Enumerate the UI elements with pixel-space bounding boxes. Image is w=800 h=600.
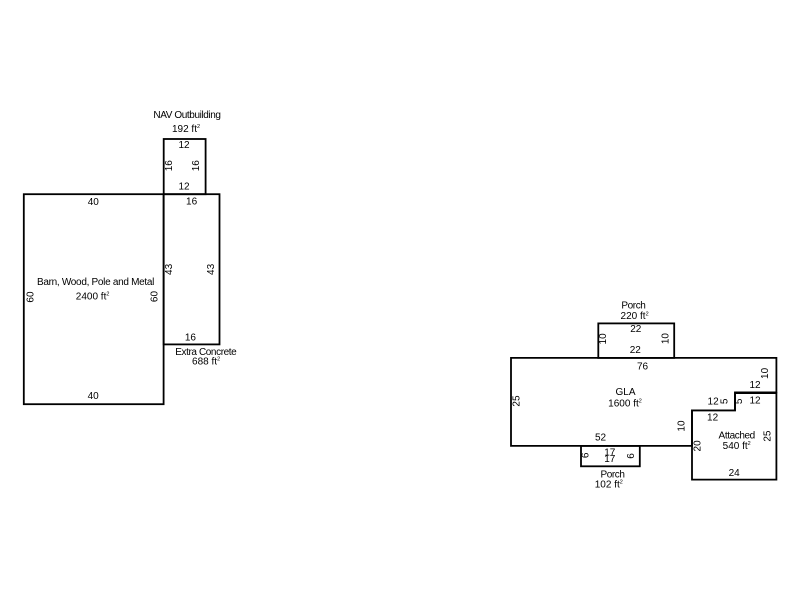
svg-text:25: 25 (512, 395, 523, 407)
svg-text:10: 10 (676, 420, 687, 432)
svg-text:1600 ft2: 1600 ft2 (608, 399, 642, 410)
GLA outline (511, 358, 776, 446)
NAV outbuilding outline (164, 139, 206, 194)
svg-text:16: 16 (191, 160, 202, 172)
svg-text:17: 17 (604, 454, 616, 465)
svg-text:43: 43 (206, 263, 217, 275)
svg-text:NAV Outbuilding: NAV Outbuilding (153, 110, 220, 121)
svg-text:22: 22 (630, 345, 642, 356)
svg-text:16: 16 (164, 160, 175, 172)
svg-text:10: 10 (760, 367, 771, 379)
svg-text:192 ft2: 192 ft2 (172, 124, 200, 135)
svg-text:5: 5 (719, 398, 730, 404)
porch top outline (598, 323, 674, 358)
svg-text:12: 12 (178, 182, 190, 193)
svg-text:Attached: Attached (719, 430, 755, 441)
svg-text:540 ft2: 540 ft2 (723, 441, 751, 452)
svg-text:76: 76 (637, 361, 649, 372)
svg-text:16: 16 (186, 196, 198, 207)
svg-text:24: 24 (729, 468, 741, 479)
svg-text:52: 52 (595, 432, 607, 443)
svg-text:40: 40 (88, 391, 100, 402)
svg-text:12: 12 (749, 396, 761, 407)
svg-text:60: 60 (26, 291, 37, 303)
svg-text:6: 6 (580, 452, 591, 458)
svg-text:10: 10 (598, 333, 609, 345)
svg-text:40: 40 (88, 197, 100, 208)
svg-text:2400 ft2: 2400 ft2 (76, 291, 110, 302)
svg-text:22: 22 (630, 324, 642, 335)
svg-text:60: 60 (150, 291, 161, 303)
svg-text:220 ft2: 220 ft2 (621, 311, 649, 322)
svg-text:6: 6 (626, 453, 637, 459)
svg-text:102 ft2: 102 ft2 (595, 479, 623, 490)
svg-text:Porch: Porch (621, 301, 645, 312)
attached garage outline (692, 393, 776, 480)
svg-text:Barn, Wood, Pole and Metal: Barn, Wood, Pole and Metal (37, 277, 154, 288)
svg-text:10: 10 (661, 333, 672, 345)
svg-text:5: 5 (734, 398, 745, 404)
extra concrete outline (164, 194, 220, 344)
svg-text:12: 12 (708, 397, 720, 408)
svg-text:12: 12 (749, 380, 761, 391)
svg-text:688 ft2: 688 ft2 (192, 356, 220, 367)
svg-text:16: 16 (185, 332, 197, 343)
svg-text:GLA: GLA (615, 387, 635, 398)
svg-text:25: 25 (762, 430, 773, 442)
svg-text:12: 12 (178, 140, 190, 151)
svg-text:20: 20 (692, 440, 703, 452)
svg-text:43: 43 (164, 263, 175, 275)
barn outline (Barn, Wood, Pole and Metal) (24, 194, 164, 404)
svg-text:12: 12 (707, 413, 719, 424)
porch bottom outline (581, 446, 640, 466)
